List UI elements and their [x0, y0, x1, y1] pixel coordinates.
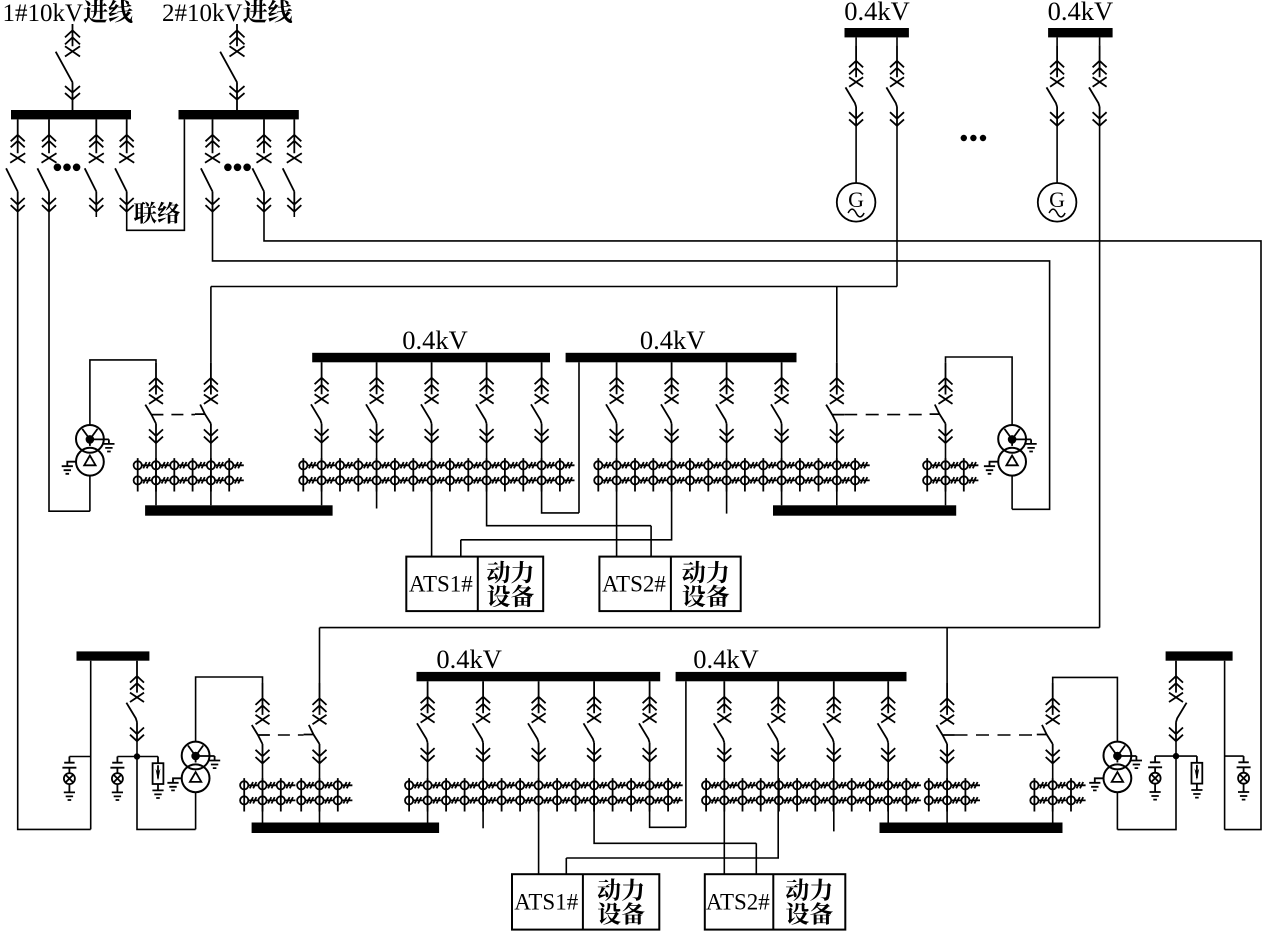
svg-text:0.4kV: 0.4kV [1048, 0, 1114, 26]
svg-text:0.4kV: 0.4kV [640, 325, 706, 355]
svg-text:ATS1#: ATS1# [514, 890, 578, 915]
svg-text:0.4kV: 0.4kV [436, 644, 502, 674]
svg-text:0.4kV: 0.4kV [844, 0, 910, 26]
svg-text:ATS1#: ATS1# [409, 572, 473, 597]
svg-text:G: G [848, 187, 864, 212]
svg-text:1#10kV: 1#10kV [3, 0, 84, 27]
svg-text:2#10kV: 2#10kV [162, 0, 243, 27]
svg-text:ATS2#: ATS2# [706, 890, 770, 915]
svg-text:0.4kV: 0.4kV [402, 325, 468, 355]
svg-text:ATS2#: ATS2# [602, 572, 666, 597]
svg-text:G: G [1049, 187, 1065, 212]
svg-text:0.4kV: 0.4kV [693, 644, 759, 674]
